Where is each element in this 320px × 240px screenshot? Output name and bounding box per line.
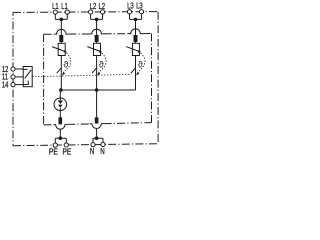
varistor L3	[126, 43, 139, 55]
terminal PE-b	[64, 143, 68, 147]
contact blade 11-12	[25, 70, 31, 79]
wire remote contact 14	[15, 84, 23, 86]
varistor L1	[52, 43, 65, 55]
svg-text:L2: L2	[90, 1, 97, 12]
wire spark gap to PE pin	[59, 111, 61, 118]
terminal L1-a	[53, 10, 57, 14]
svg-text:PE: PE	[63, 147, 72, 157]
svg-text:L3: L3	[127, 0, 134, 11]
wire N cup to N terminals	[93, 128, 103, 142]
module boundary (inner dash-dot box)	[44, 33, 152, 36]
wire N bus	[61, 89, 135, 91]
wire PE cup to PE terminals	[55, 129, 66, 143]
junction node N-bus	[95, 88, 99, 92]
svg-text:L1: L1	[61, 1, 68, 12]
wire L1 terminals to junction and module pin	[55, 14, 67, 35]
svg-text:ϑ: ϑ	[99, 60, 104, 70]
enclosure border (outer dash-dot rectangle)	[13, 11, 158, 14]
wire remote contact 11	[15, 76, 23, 78]
module pin N-leg	[95, 117, 99, 123]
module pin L2	[95, 35, 99, 42]
wire L3 terminals to junction and module pin	[130, 14, 142, 35]
terminal L3-a	[127, 10, 131, 14]
svg-text:ϑ: ϑ	[138, 60, 143, 70]
plug contact socket L1 (top hump)	[54, 29, 68, 34]
wire L1 varistor branch	[60, 42, 62, 90]
wire L2 terminals to junction and module pin	[91, 14, 103, 35]
terminal L2-b	[101, 10, 105, 14]
terminal 12	[11, 67, 15, 71]
svg-text:N: N	[90, 146, 94, 156]
disconnect point L1 (tick)	[57, 68, 62, 73]
contact 12 stub	[23, 68, 27, 70]
terminal L3-b	[139, 10, 143, 14]
wire L2 varistor branch	[96, 42, 98, 90]
svg-text:14: 14	[2, 82, 8, 90]
wire remote contact 12	[15, 68, 23, 70]
disconnect point L3 (tick)	[131, 68, 136, 73]
plug contact socket PE-leg (bottom cup)	[53, 124, 67, 129]
module pin L1	[59, 35, 63, 42]
thermal disconnect dashed arrow L1	[65, 53, 71, 71]
terminal PE-a	[53, 143, 57, 147]
junction node PE split	[59, 136, 63, 140]
svg-text:PE: PE	[49, 147, 58, 157]
contact 14 stub	[23, 81, 28, 85]
junction node L1-bus	[59, 88, 63, 92]
junction node N split	[95, 136, 99, 140]
junction node L3	[134, 18, 138, 22]
remote signalling changeover contact box	[23, 67, 32, 87]
thermal disconnect dashed arrow L2	[100, 53, 106, 71]
terminal N-a	[91, 143, 95, 147]
plug contact socket N-leg (bottom cup)	[90, 124, 104, 129]
junction node L2	[95, 18, 99, 22]
junction node L1	[60, 18, 64, 22]
svg-text:L3: L3	[136, 0, 143, 11]
svg-text:N: N	[100, 146, 104, 156]
plug contact socket L3 (top hump)	[129, 29, 143, 34]
varistor L2	[87, 43, 100, 55]
wire bus to N pin	[96, 90, 98, 117]
module pin PE-leg	[59, 117, 63, 124]
module pin L3	[134, 35, 138, 42]
terminal L1-b	[65, 10, 69, 14]
thermal disconnect dashed arrow L3	[139, 53, 145, 71]
terminal 11	[11, 75, 15, 79]
svg-text:ϑ: ϑ	[64, 60, 69, 70]
spark gap N-PE	[54, 98, 67, 111]
terminal L2-a	[89, 10, 93, 14]
wire bus to spark gap	[59, 90, 61, 98]
disconnect point L2 (tick)	[92, 68, 97, 73]
plug contact socket L2 (top hump)	[90, 29, 104, 34]
terminal 14	[11, 83, 15, 87]
terminal N-b	[101, 142, 105, 146]
svg-text:12: 12	[2, 66, 8, 74]
svg-text:L1: L1	[52, 1, 59, 12]
wire L3 varistor branch	[135, 42, 137, 90]
mechanical linkage dotted line	[32, 74, 130, 76]
svg-text:L2: L2	[99, 1, 106, 12]
